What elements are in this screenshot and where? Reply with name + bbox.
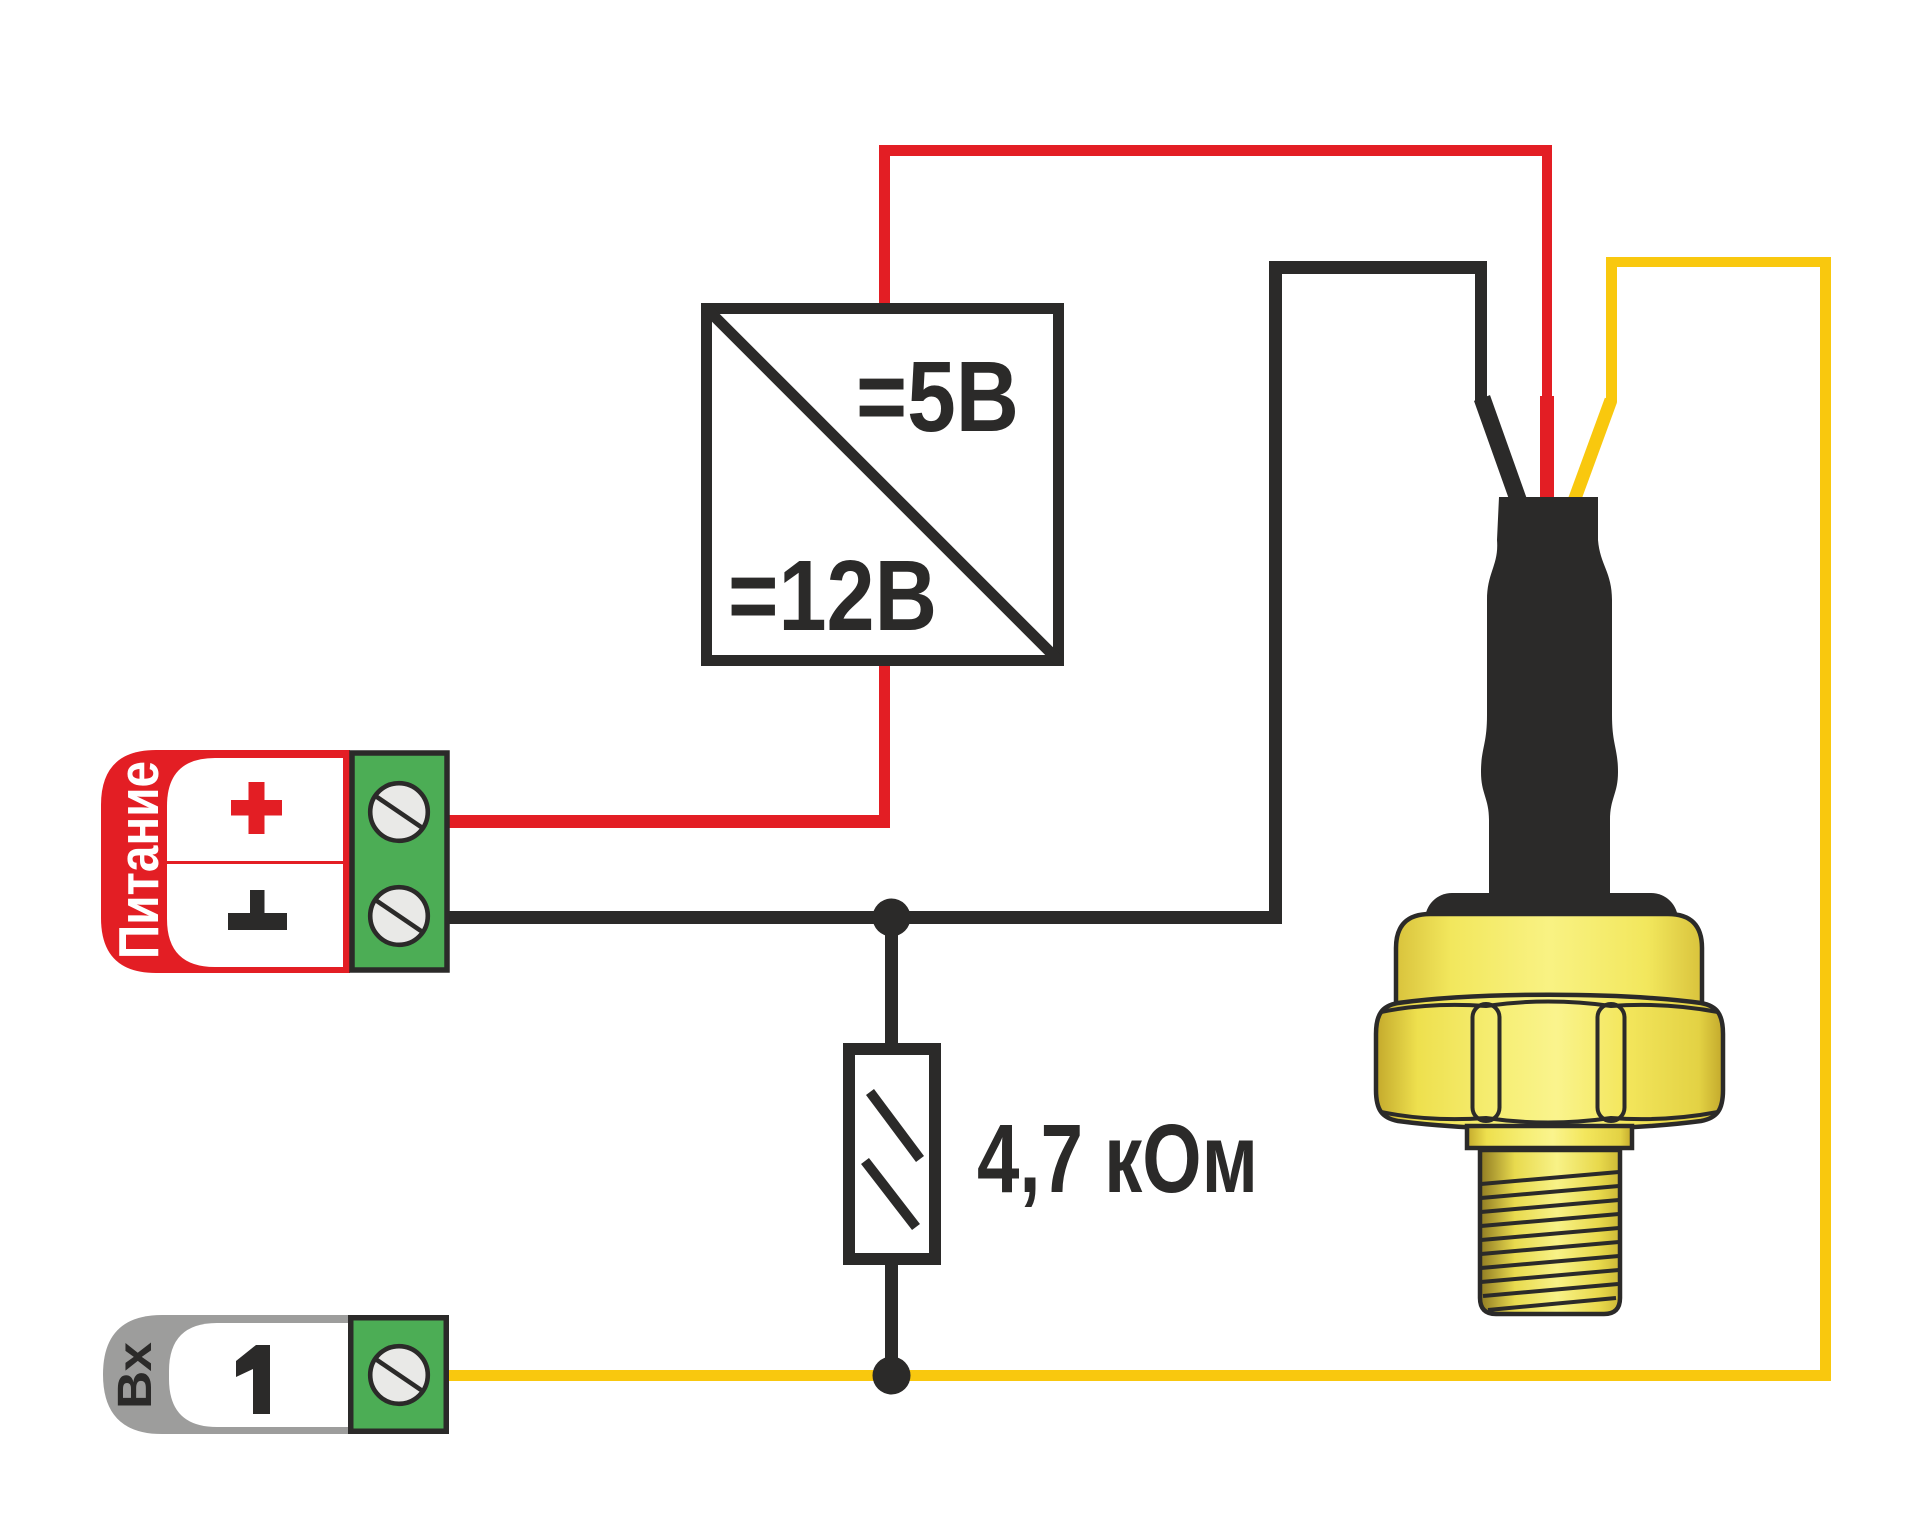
wire: red +12V horizontal top segment [879, 145, 1552, 156]
resistor R1 slash 1 [870, 1092, 920, 1159]
pressure sensor: yellow cap [1396, 914, 1702, 1012]
wire: red vertical drop into DC-DC converter top [879, 145, 890, 310]
wire: yellow horizontal top segment [1606, 257, 1831, 267]
power terminal block (green) [352, 753, 447, 970]
svg-text:Питание: Питание [107, 761, 171, 959]
power connector label plate (Питание) red body [101, 750, 350, 973]
label input number 1 [236, 1345, 270, 1414]
wire: yellow horizontal bottom to input terminal [449, 1370, 1831, 1381]
svg-text:4,7 кОм: 4,7 кОм [977, 1104, 1258, 1213]
ground tack symbol [228, 890, 287, 930]
node B: junction dot on yellow wire [873, 1357, 911, 1395]
svg-text:Вх: Вх [109, 1342, 162, 1409]
input terminal block (green) [351, 1318, 447, 1432]
power connector divider line [167, 861, 343, 864]
pressure sensor: hex nut [1376, 995, 1723, 1130]
resistor R1 body [849, 1049, 935, 1259]
wire: black diagonal lead into cable [1482, 398, 1519, 502]
svg-text:=12В: =12В [728, 540, 937, 652]
resistor R1 slash 2 [865, 1161, 916, 1227]
wire: black vertical riser from sensor [1269, 261, 1282, 924]
wire: yellow diagonal lead into cable [1574, 400, 1611, 501]
screw terminal input 1 [370, 1346, 428, 1404]
input connector label plate (Вх) gray body [103, 1315, 348, 1434]
wire: yellow signal vertical above cable [1606, 257, 1617, 402]
DC-DC converter U1 body [707, 309, 1059, 661]
input connector white inner panel [169, 1323, 348, 1427]
pressure sensor: threaded stem [1480, 1150, 1620, 1314]
wire: red +5V lead into sensor cable (thicker part) [1540, 396, 1554, 500]
wire: black ground horizontal main [448, 911, 1282, 924]
wire: red vertical from DC-DC converter bottom [879, 658, 890, 828]
wire: black branch from node down to resistor [885, 917, 898, 1049]
wire: red vertical down to sensor cable (thin part) [1542, 145, 1552, 398]
screw terminal ground [370, 887, 428, 945]
pressure sensor: black shoulder behind cap [1425, 893, 1678, 973]
wire: red horizontal to power terminal + [448, 815, 890, 828]
plus symbol [231, 782, 282, 834]
power connector white inner panel [167, 758, 343, 967]
pressure sensor: collar [1467, 1126, 1632, 1148]
node A: junction dot on ground wire [873, 899, 911, 937]
wire: yellow vertical right segment [1820, 257, 1831, 1381]
wire: black branch from resistor down to yellow wire [885, 1259, 898, 1381]
screw terminal + [370, 783, 428, 841]
pressure sensor: black cable with strain relief [1481, 497, 1618, 910]
DC-DC converter diagonal divider [705, 307, 1060, 662]
wire: black vertical down toward cable [1475, 261, 1487, 402]
wire: black horizontal top to sensor [1269, 261, 1487, 274]
svg-text:=5В: =5В [856, 341, 1019, 453]
